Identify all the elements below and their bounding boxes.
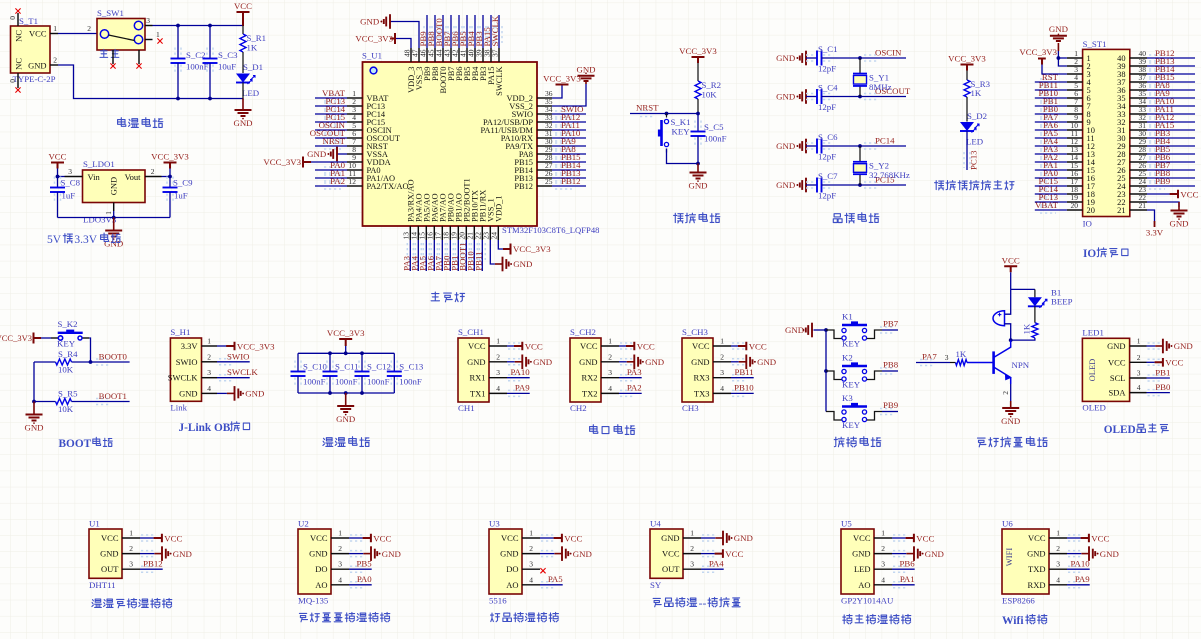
wire + net label PB5 — [350, 566, 365, 572]
svg-text:4: 4 — [720, 384, 724, 393]
wire + net label PA9 — [508, 390, 523, 396]
svg-text:VCC: VCC — [564, 533, 582, 543]
pin U1.19 PB1/AO — [457, 226, 459, 240]
svg-text:SCL: SCL — [1110, 373, 1126, 383]
wire + ground GND (LED1.1) — [1148, 343, 1163, 349]
wire + net label PB3 — [482, 15, 484, 48]
title 按键电路 — [834, 437, 844, 447]
pin ST1.23 — [1130, 193, 1147, 195]
pin U1.21 PB10/TX — [473, 226, 475, 240]
module U5 body — [841, 529, 874, 594]
svg-text:VCC_3V3: VCC_3V3 — [355, 34, 393, 44]
ground GND (S_C4) — [806, 96, 807, 98]
svg-text:37: 37 — [491, 49, 500, 57]
svg-text:3.3V: 3.3V — [74, 234, 97, 246]
svg-text:OLED: OLED — [1082, 403, 1105, 413]
svg-text:1K: 1K — [971, 88, 982, 98]
svg-text:2: 2 — [529, 544, 533, 553]
svg-text:1: 1 — [529, 529, 533, 538]
svg-text:S_K2: S_K2 — [58, 319, 78, 329]
buzzer B1 body — [993, 311, 1005, 326]
wire + net label PA5 — [1040, 135, 1056, 141]
svg-text:VCC: VCC — [101, 533, 119, 543]
svg-text:3: 3 — [720, 368, 724, 377]
wire + net label PA4 — [702, 566, 717, 572]
pin S_T1.1 VCC — [50, 33, 58, 35]
svg-text:RXD: RXD — [1028, 580, 1046, 590]
wire + net label PA1 — [324, 175, 341, 181]
svg-text:S_LDO1: S_LDO1 — [83, 159, 115, 169]
svg-text:CH3: CH3 — [682, 403, 699, 413]
pin CH1.1 VCC — [489, 345, 507, 347]
wire + ground GND (U6) — [1068, 551, 1083, 557]
svg-text:1: 1 — [690, 529, 694, 538]
svg-text:GND: GND — [233, 118, 252, 128]
svg-text:GND: GND — [776, 53, 795, 63]
svg-text:LED: LED — [966, 137, 983, 147]
svg-text:GND: GND — [336, 414, 355, 424]
title 声光报警电路 — [978, 438, 986, 447]
wire + net label PB8 — [880, 368, 895, 374]
pin U4.2 VCC — [683, 553, 701, 555]
wire buzzer bottom — [1005, 324, 1011, 340]
wire + power port VCC_3V3 (H1.1) — [217, 345, 227, 347]
wire + net label PB1 — [457, 240, 459, 271]
svg-text:1: 1 — [1137, 337, 1141, 346]
svg-text:12pF: 12pF — [818, 152, 836, 162]
svg-text:GND: GND — [776, 141, 795, 151]
wire + net label PC14 — [1040, 191, 1056, 197]
svg-text:VCC: VCC — [1165, 358, 1183, 368]
wire K1 bottom to gnd bus — [667, 149, 699, 164]
svg-text:0: 0 — [8, 16, 17, 20]
svg-text:1: 1 — [608, 337, 612, 346]
svg-text:10K: 10K — [702, 90, 718, 100]
pin U1.37 SWCLK — [498, 48, 500, 62]
svg-text:S_R4: S_R4 — [58, 349, 78, 359]
title 电源电路 — [118, 118, 126, 127]
svg-text:VCC: VCC — [1180, 189, 1198, 199]
wire VDD_1 to VCC_3V3 — [498, 240, 503, 249]
svg-text:0: 0 — [8, 79, 17, 83]
svg-text:VCC: VCC — [725, 549, 743, 559]
wire + net label PB9 — [1149, 183, 1165, 189]
wire + net label PA10 — [1068, 566, 1083, 572]
svg-text:GND: GND — [173, 549, 192, 559]
svg-text:KEY: KEY — [842, 420, 861, 430]
pin U1.10 PA0 — [347, 169, 363, 171]
title module U5 — [843, 614, 852, 623]
wire to R3 — [966, 71, 968, 81]
svg-text:GND: GND — [757, 357, 776, 367]
svg-text:S_C4: S_C4 — [818, 83, 838, 93]
pin U2.3 DO — [331, 568, 349, 570]
wire T1 GND down to gnd bus — [58, 65, 243, 99]
svg-text:U2: U2 — [298, 519, 309, 529]
pin U1.26 PB13 — [537, 177, 552, 179]
pin LED1.1 GND — [1130, 345, 1147, 347]
ground GND (S_C7) — [806, 184, 807, 186]
resistor S_R4 10K — [34, 361, 56, 363]
svg-text:GND: GND — [513, 259, 532, 269]
wire + net label SWCLK — [498, 15, 500, 48]
svg-text:3: 3 — [881, 560, 885, 569]
svg-text:GND: GND — [1107, 341, 1125, 351]
pin CH2.4 TX2 — [601, 392, 619, 394]
svg-text:OSCIN: OSCIN — [875, 48, 902, 58]
svg-text:S_C13: S_C13 — [399, 362, 424, 372]
svg-text:3: 3 — [608, 368, 612, 377]
pin U1.34 SWIO — [537, 113, 552, 115]
svg-text:2: 2 — [87, 24, 91, 33]
wire + net label PB0 — [1040, 111, 1056, 117]
svg-text:S_C11: S_C11 — [335, 362, 359, 372]
label 开关 (switch) — [100, 49, 108, 57]
pin U1.39 PB3 — [482, 48, 484, 62]
wire + net label PA9 — [555, 143, 572, 149]
no-connect X switch bottom pins — [110, 63, 115, 68]
svg-text:SDA: SDA — [1108, 388, 1126, 398]
switch bottom stubs — [112, 50, 114, 64]
svg-text:GND: GND — [785, 325, 804, 335]
wire + ground GND (U3) — [541, 551, 556, 557]
svg-text:24: 24 — [489, 232, 498, 240]
junction — [168, 175, 172, 179]
wire PC15 + net label — [864, 182, 879, 188]
svg-text:GND: GND — [500, 549, 518, 559]
capacitor S_C6 12pF — [806, 143, 816, 149]
svg-text:1: 1 — [1056, 529, 1060, 538]
wire + net label PB7 — [1149, 167, 1165, 173]
svg-text:VCC_3V3: VCC_3V3 — [0, 333, 32, 343]
wire + net label PB10 — [473, 240, 475, 271]
pin U1.18 PB0/AO — [449, 226, 451, 240]
svg-text:STM32F103C8T6_LQFP48: STM32F103C8T6_LQFP48 — [502, 225, 599, 235]
svg-text:KEY: KEY — [57, 339, 76, 349]
wire + net label PB7 — [880, 327, 895, 333]
pin ST1.5 — [1067, 89, 1083, 91]
capacitor S_C11 100nF — [327, 361, 333, 371]
wire + net label RST — [1040, 79, 1056, 85]
connector S_T1 TYPE-C-2P — [11, 26, 51, 73]
svg-text:IO: IO — [1083, 248, 1096, 260]
svg-text:10K: 10K — [58, 365, 74, 375]
svg-text:SY: SY — [650, 580, 662, 590]
svg-text:100nF: 100nF — [399, 377, 422, 387]
no-connect X (U3 pin 3) — [540, 568, 545, 573]
wire + net label OSCOUT — [324, 135, 341, 141]
title 复位电路 — [674, 213, 684, 223]
pin CH2.1 VCC — [601, 345, 619, 347]
svg-text:PA10: PA10 — [510, 367, 530, 377]
pin U1.13 PA3/RX/AO — [409, 226, 411, 240]
pin U1.3 PC14 — [347, 113, 363, 115]
wire OSCOUT + net label — [864, 94, 879, 100]
svg-text:VCC_3V3: VCC_3V3 — [263, 157, 301, 167]
pin U3.2 GND — [522, 553, 540, 555]
svg-text:GND: GND — [661, 533, 679, 543]
wire D2 to PC13 + vertical net label — [966, 131, 968, 170]
svg-text:RX1: RX1 — [469, 373, 485, 383]
svg-text:NRST: NRST — [323, 136, 346, 146]
wire + power port VCC (CH2) — [620, 343, 635, 349]
wire + net label PA8 — [1149, 87, 1165, 93]
svg-text:K1: K1 — [842, 312, 853, 322]
svg-text:GND: GND — [28, 61, 46, 71]
pushbutton K2 KEY — [826, 371, 842, 380]
svg-text:S_Y2: S_Y2 — [869, 161, 889, 171]
capacitor S_C5 100nF — [695, 121, 701, 131]
pin CH1.2 GND — [489, 361, 507, 363]
svg-text:3: 3 — [529, 560, 533, 569]
wire + power port VCC (CH3) — [732, 343, 747, 349]
header S_ST1 body — [1083, 49, 1130, 216]
svg-text:PA4: PA4 — [709, 559, 724, 569]
svg-text:S_R5: S_R5 — [58, 389, 78, 399]
svg-text:GND: GND — [309, 549, 327, 559]
wire + net label PB11 — [1040, 87, 1056, 93]
ground GND filter — [345, 393, 347, 406]
svg-text:PA5: PA5 — [548, 574, 563, 584]
svg-text:S_C1: S_C1 — [818, 44, 838, 54]
wire VCC_3V3 to K2 — [41, 337, 52, 339]
svg-text:RX3: RX3 — [693, 373, 709, 383]
wire R3 to D2 — [966, 97, 968, 122]
svg-text:PA3: PA3 — [627, 367, 642, 377]
pin H1.2 SWIO — [202, 361, 218, 363]
svg-text:NC: NC — [14, 30, 24, 42]
wire + power port VCC (U3) — [541, 535, 556, 541]
crystal S_Y1 8MHz — [859, 58, 861, 74]
title module U1 — [92, 599, 102, 607]
pushbutton S_K2 KEY — [58, 332, 83, 334]
svg-text:CH1: CH1 — [458, 403, 475, 413]
pin ST1.12 — [1067, 145, 1083, 147]
pin U1.47 VSS_3 — [418, 48, 420, 62]
svg-text:3.3V: 3.3V — [1146, 228, 1164, 238]
module U6 body — [1002, 529, 1049, 594]
svg-text:3.3V: 3.3V — [181, 341, 199, 351]
pin ST1.39 — [1130, 65, 1147, 67]
svg-text:VCC: VCC — [692, 341, 710, 351]
svg-text:1uF: 1uF — [62, 191, 76, 201]
power port VCC_3V3 at U1 VDDA pin9 — [303, 161, 347, 163]
svg-text:OUT: OUT — [101, 564, 119, 574]
wire + net label PA9 — [1068, 582, 1083, 588]
svg-text:U4: U4 — [650, 519, 661, 529]
wire + net label PA0 — [350, 582, 365, 588]
svg-text:12: 12 — [349, 177, 357, 186]
pin U1.33 PA12/USB/DP — [537, 121, 552, 123]
net label BOOT1 + wire — [96, 399, 111, 405]
wire + net label PA15 — [1149, 127, 1165, 133]
pin ST1.22 — [1130, 201, 1147, 203]
svg-text:WIFI: WIFI — [1004, 548, 1014, 567]
svg-text:VCC: VCC — [1028, 533, 1046, 543]
pin U1.14 PA4/AO — [417, 226, 419, 240]
no-connect X S_T1 bottom — [15, 87, 20, 92]
pin U1.1 VCC — [122, 537, 140, 539]
svg-text:21: 21 — [1117, 206, 1125, 215]
ground GND LDO — [113, 218, 115, 231]
svg-text:2: 2 — [881, 544, 885, 553]
pin ST1.34 — [1130, 105, 1147, 107]
header S_CH2 body — [570, 338, 601, 402]
svg-text:S_H1: S_H1 — [170, 327, 190, 337]
pin U1.11 PA1/AO — [347, 177, 363, 179]
svg-text:4: 4 — [207, 384, 211, 393]
svg-text:GP2Y1014AU: GP2Y1014AU — [841, 596, 894, 606]
svg-text:BOOT: BOOT — [59, 438, 92, 450]
display LED1 OLED body — [1082, 338, 1129, 401]
svg-text:S_C10: S_C10 — [303, 362, 328, 372]
pin U1.35 VSS_2 — [537, 105, 552, 107]
wire + net label PA2 — [1040, 159, 1056, 165]
pin U1.15 PA5/AO — [425, 226, 427, 240]
ground GND top of U1 — [390, 21, 391, 23]
pin U5.3 LED — [874, 568, 892, 570]
header S_CH1 body — [458, 338, 489, 402]
pin U5.2 GND — [874, 553, 892, 555]
wire + net label PB9 — [426, 15, 428, 48]
pin ST1.32 — [1130, 121, 1147, 123]
power port VCC_3V3 top of U1 — [390, 33, 395, 44]
pin U1.29 PA8 — [537, 153, 552, 155]
pin ST1.40 — [1130, 57, 1147, 59]
svg-text:PB9: PB9 — [1155, 176, 1171, 186]
wire + net label PB12 — [141, 566, 156, 572]
svg-text:VCC_3V3: VCC_3V3 — [327, 328, 365, 338]
wire + net label PA11 — [555, 127, 572, 133]
pin U1.12 PA2/TX/AO — [347, 185, 363, 187]
svg-text:PA2/TX/AO: PA2/TX/AO — [367, 182, 409, 191]
ground GND right of ST1 — [1178, 202, 1180, 211]
svg-text:2: 2 — [720, 352, 724, 361]
pin U1.4 PC15 — [347, 121, 363, 123]
wire OSCIN + net label — [864, 55, 879, 61]
wire + net label PB4 — [1149, 143, 1165, 149]
pin U1.16 PA6/AO — [433, 226, 435, 240]
wire + net label PA4 — [1040, 143, 1056, 149]
wire + net label SWCLK — [219, 375, 234, 381]
wire + net label PA7 — [1040, 119, 1056, 125]
svg-text:PC14: PC14 — [875, 136, 895, 146]
pin ST1.7 — [1067, 105, 1083, 107]
svg-text:2: 2 — [151, 167, 155, 176]
svg-text:NC: NC — [14, 58, 24, 70]
wire + net label PA11 — [1149, 111, 1165, 117]
mcu S_U1 STM32F103C8T6 body — [363, 62, 538, 226]
svg-text:S_C8: S_C8 — [61, 178, 81, 188]
pushbutton K3 KEY — [826, 412, 842, 421]
wire + net label PB6 — [458, 15, 460, 48]
svg-text:4: 4 — [881, 575, 885, 584]
svg-text:S_D1: S_D1 — [243, 62, 263, 72]
no-connect X switch pin1 — [157, 38, 162, 43]
pin ST1.9 — [1067, 121, 1083, 123]
resistor S_R3 1K — [964, 80, 970, 97]
wire button bus — [825, 330, 827, 412]
svg-text:4: 4 — [1137, 383, 1141, 392]
pin U1.27 PB14 — [537, 169, 552, 171]
header S_CH3 body — [682, 338, 713, 402]
wire + ground GND (CH2) — [620, 359, 635, 365]
capacitor S_C9 1uF — [167, 177, 173, 187]
svg-text:4: 4 — [608, 384, 612, 393]
wire VDD_2 to VCC_3V3 — [552, 85, 562, 99]
svg-text:Vout: Vout — [125, 172, 142, 182]
svg-text:S_R2: S_R2 — [702, 80, 722, 90]
resistor S_R5 10K — [34, 401, 56, 403]
wire PC14 + net label — [864, 143, 879, 149]
pin ST1.38 — [1130, 73, 1147, 75]
pin-1 indicator circle — [370, 67, 377, 74]
pin U6.1 VCC — [1049, 537, 1067, 539]
svg-text:GND: GND — [576, 65, 595, 75]
pin S_T1.0 top — [17, 13, 19, 26]
pin H1.1 3.3V — [202, 345, 218, 347]
svg-text:2: 2 — [1137, 353, 1141, 362]
wire + ground GND (U2) — [350, 551, 365, 557]
svg-text:2: 2 — [1001, 391, 1010, 395]
wire + net label PB13 — [555, 175, 572, 181]
pin H1.4 GND — [202, 392, 218, 394]
pin CH2.3 RX2 — [601, 377, 619, 379]
pin ST1.37 — [1130, 81, 1147, 83]
wire + net label OSCIN — [324, 127, 341, 133]
capacitor S_C2 100nF — [175, 48, 181, 58]
svg-text:4: 4 — [496, 384, 500, 393]
wire + net label PB15 — [555, 159, 572, 165]
wire + net label PA0 — [324, 167, 341, 173]
resistor S_R2 10K — [695, 81, 701, 99]
svg-text:GND: GND — [776, 180, 795, 190]
svg-text:S_C3: S_C3 — [218, 50, 238, 60]
pin U2.1 VCC — [331, 537, 349, 539]
svg-text:PB9: PB9 — [883, 400, 899, 410]
junctions bottom bus — [328, 391, 332, 395]
svg-text:S_CH3: S_CH3 — [682, 327, 709, 337]
wire + net label PB7 — [450, 15, 452, 48]
svg-text:AO: AO — [858, 580, 870, 590]
svg-text:1: 1 — [156, 30, 160, 39]
svg-text:VCC_3V3: VCC_3V3 — [543, 74, 581, 84]
wire LED to gnd bus — [242, 83, 244, 99]
ground GND right of U1 — [585, 81, 587, 84]
svg-text:1: 1 — [53, 24, 57, 33]
svg-text:S_T1: S_T1 — [19, 16, 38, 26]
ground GND (S_C6) — [806, 145, 807, 147]
title 串口电路 — [590, 425, 598, 434]
svg-text:1K: 1K — [1022, 323, 1032, 334]
wire VSS_3 to GND — [390, 22, 419, 49]
power port VCC_3V3 indicator — [961, 65, 974, 71]
svg-text:OLED: OLED — [1087, 359, 1097, 382]
svg-text:VCC_3V3: VCC_3V3 — [237, 341, 275, 351]
wire + net label PB11 — [481, 240, 483, 271]
header S_H1 J-Link body — [170, 338, 201, 401]
wire + net label NRST — [324, 143, 341, 149]
svg-text:2: 2 — [690, 544, 694, 553]
switch pin 1 — [145, 39, 153, 41]
wire VCC to C8/Vin node — [57, 169, 59, 177]
svg-text:4: 4 — [529, 575, 533, 584]
wire + net label PB1 — [1040, 103, 1056, 109]
wire ST1 pin22 to GND — [1147, 202, 1179, 207]
svg-text:3: 3 — [146, 16, 150, 25]
pin ST1.29 — [1130, 145, 1147, 147]
pin ST1.13 — [1067, 153, 1083, 155]
